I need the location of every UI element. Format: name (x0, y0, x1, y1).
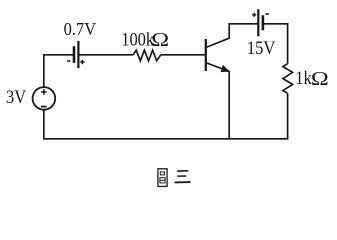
battery V1 0.7V (short plate, minus) (73, 46, 76, 63)
voltage source V3 3V circle (33, 87, 56, 110)
svg-text:1k: 1k (295, 67, 312, 88)
voltage source V3 minus sign (41, 106, 47, 108)
wire battery to resistor R1 (79, 54, 133, 56)
svg-text:3V: 3V (6, 86, 26, 107)
svg-text:100k: 100k (121, 28, 154, 49)
transistor Q1 base bar (205, 39, 207, 71)
caption figure-three character SAN (drawn strokes) (175, 171, 191, 183)
battery V1 plus sign (80, 61, 84, 63)
battery V2 15V (long plate, plus) (257, 9, 259, 36)
wire resistor R1 to base of Q1 (161, 54, 206, 56)
battery V2 minus sign (265, 13, 269, 15)
battery V2 15V (short plate, minus) (262, 15, 265, 30)
resistor R1 100k zigzag (133, 50, 161, 61)
svg-text:15V: 15V (247, 37, 276, 58)
svg-text:Ω: Ω (311, 67, 329, 90)
battery V2 plus sign (252, 14, 256, 16)
transistor Q1 collector diagonal, riser and top wire to battery V2 (206, 24, 258, 48)
wire resistor R2 down, bottom rail, up to left (corner joins) (44, 93, 288, 139)
resistor R2 1k zigzag (283, 64, 293, 94)
transistor Q1 emitter arrowhead (221, 65, 230, 72)
transistor Q1 emitter diagonal and vertical down to bottom rail (206, 63, 229, 140)
voltage source V3 plus sign (41, 91, 47, 93)
caption figure-three character TU (drawn strokes) (158, 169, 167, 187)
wire battery V2 to top-right corner and right vertical down to resistor R2 (264, 24, 288, 64)
svg-text:Ω: Ω (151, 28, 169, 51)
wire top-left horizontal and left vertical upper (corner node) (44, 55, 73, 87)
svg-text:0.7V: 0.7V (64, 19, 97, 39)
battery V1 0.7V (long plate, plus) (77, 41, 79, 68)
battery V1 minus sign (67, 60, 71, 62)
